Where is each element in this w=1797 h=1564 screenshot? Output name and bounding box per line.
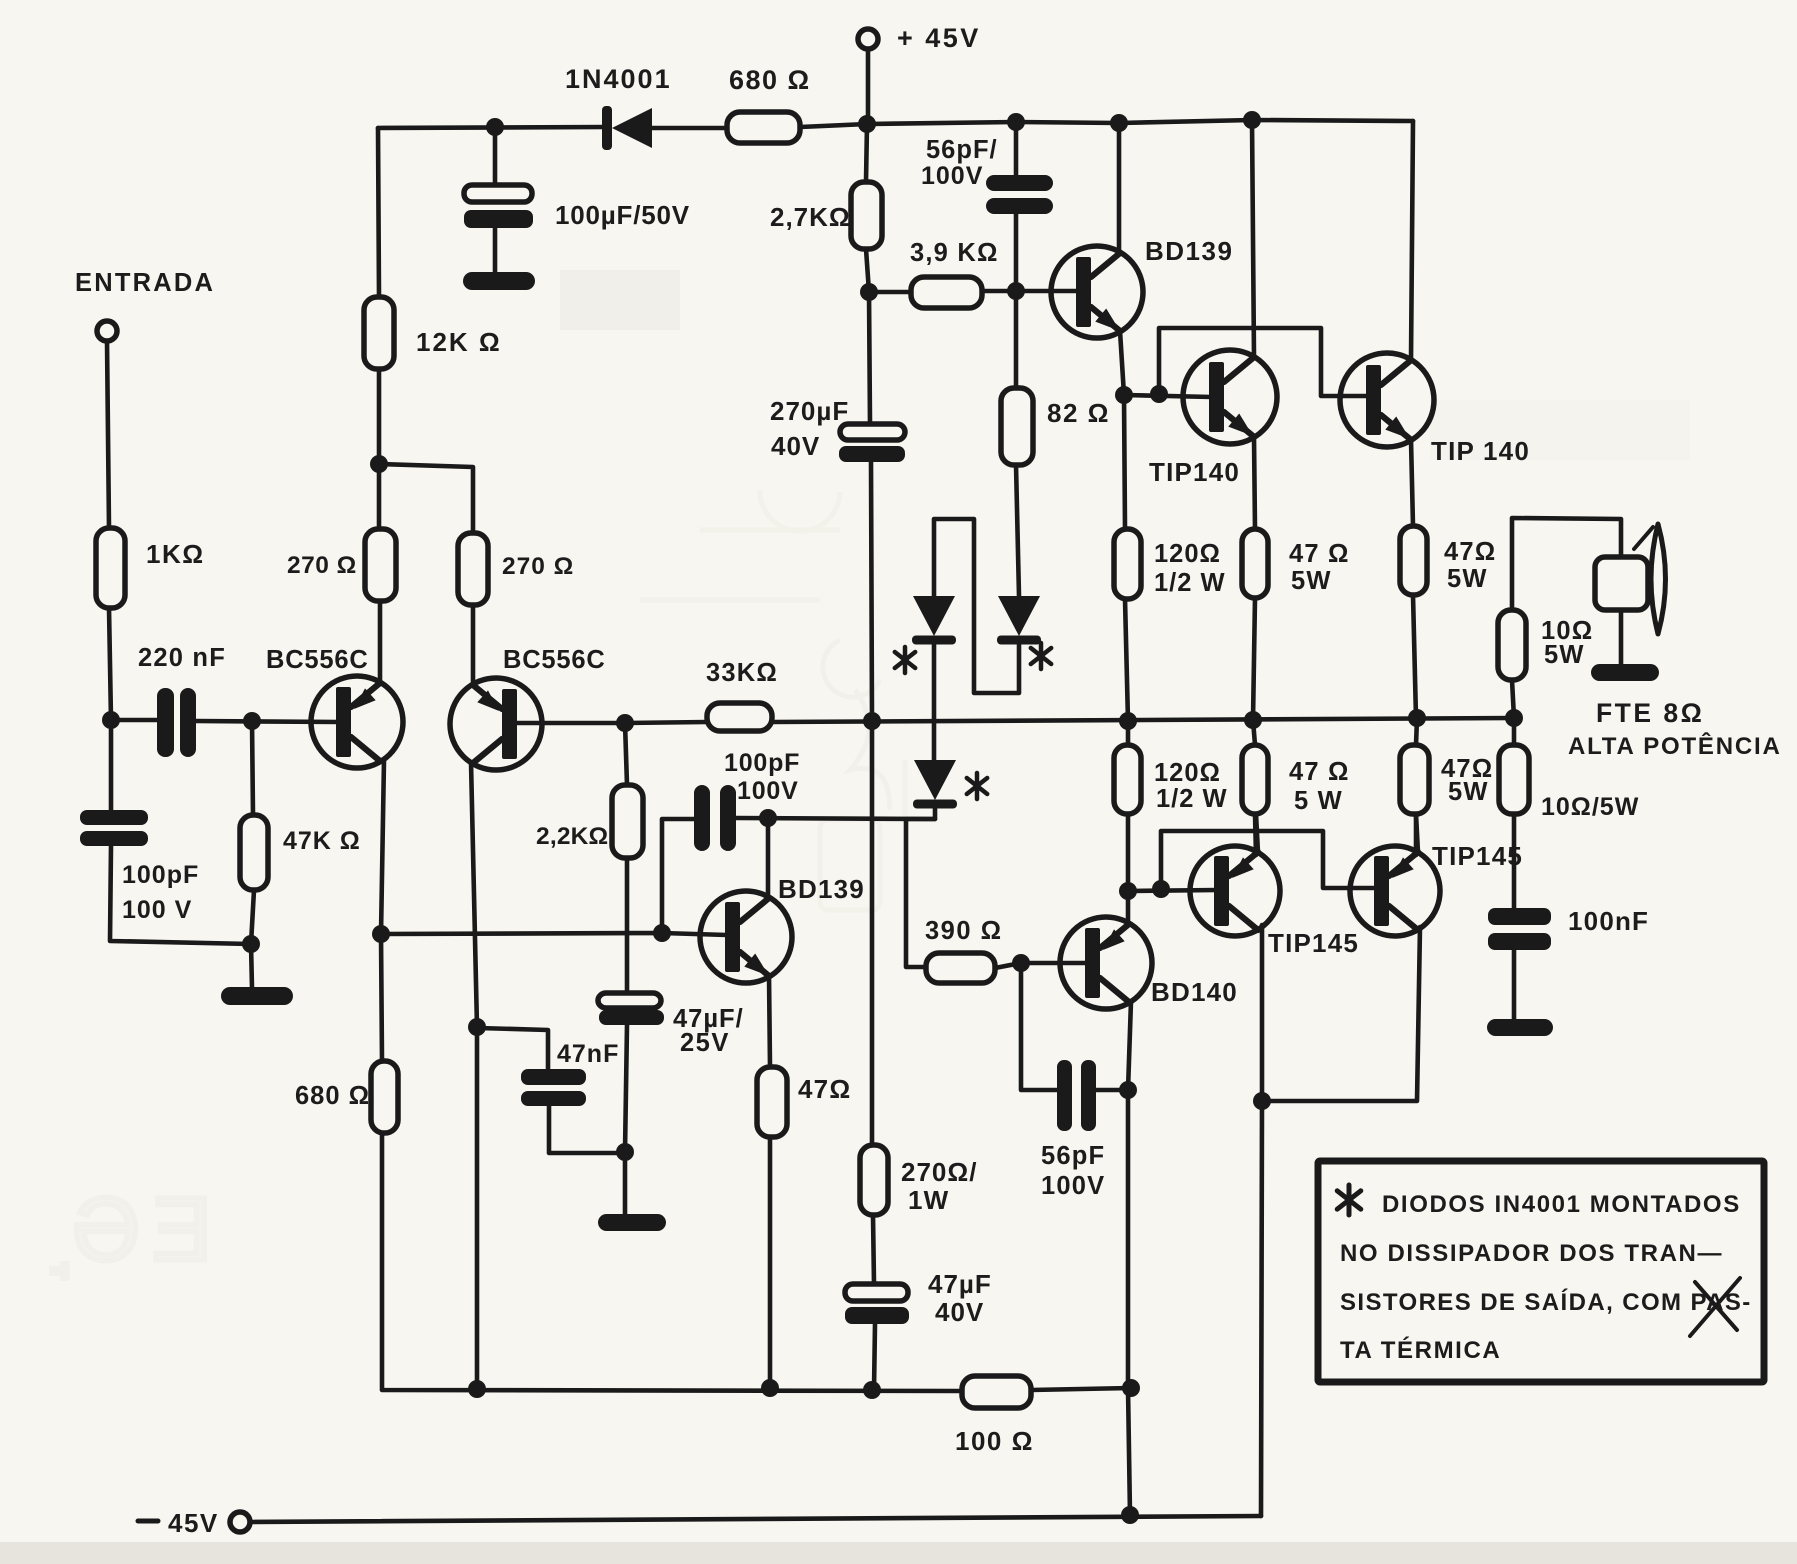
svg-text:120Ω: 120Ω (1154, 540, 1221, 568)
svg-text:+ 45V: + 45V (897, 23, 981, 53)
svg-text:100V: 100V (737, 777, 799, 805)
svg-text:BD140: BD140 (1151, 977, 1238, 1007)
svg-text:TIP145: TIP145 (1432, 841, 1523, 871)
svg-text:BC556C: BC556C (266, 646, 369, 674)
svg-text:BC556C: BC556C (503, 646, 606, 674)
svg-text:270µF: 270µF (770, 396, 849, 426)
svg-text:5W: 5W (1447, 565, 1488, 593)
svg-text:5W: 5W (1291, 567, 1332, 595)
svg-text:680 Ω: 680 Ω (295, 1082, 370, 1110)
svg-text:82 Ω: 82 Ω (1047, 398, 1110, 428)
svg-text:33KΩ: 33KΩ (706, 659, 778, 687)
svg-text:FTE 8Ω: FTE 8Ω (1596, 698, 1704, 728)
svg-text:BD139: BD139 (778, 874, 865, 904)
svg-text:2,7KΩ: 2,7KΩ (770, 202, 851, 232)
svg-text:5W: 5W (1544, 641, 1585, 669)
svg-text:56pF/: 56pF/ (926, 136, 998, 164)
svg-text:1/2 W: 1/2 W (1156, 785, 1228, 813)
svg-text:45V: 45V (168, 1508, 219, 1538)
svg-text:220 nF: 220 nF (138, 644, 226, 672)
svg-text:47Ω: 47Ω (798, 1074, 851, 1104)
svg-text:SISTORES DE SAÍDA, COM PAS-: SISTORES DE SAÍDA, COM PAS- (1340, 1288, 1752, 1316)
svg-text:47Ω: 47Ω (1444, 538, 1496, 566)
svg-text:12K Ω: 12K Ω (416, 327, 502, 357)
svg-text:ENTRADA: ENTRADA (75, 269, 215, 297)
svg-text:1/2 W: 1/2 W (1154, 569, 1226, 597)
svg-text:40V: 40V (935, 1297, 984, 1327)
svg-text:NO DISSIPADOR DOS TRAN—: NO DISSIPADOR DOS TRAN— (1340, 1240, 1723, 1267)
svg-text:1KΩ: 1KΩ (146, 539, 205, 569)
svg-text:100V: 100V (1041, 1172, 1105, 1200)
svg-text:̘ƏƎ: ̘ƏƎ (51, 1180, 224, 1280)
svg-text:270Ω/: 270Ω/ (901, 1157, 977, 1187)
svg-text:100 V: 100 V (122, 896, 192, 924)
svg-text:100µF/50V: 100µF/50V (555, 200, 690, 230)
svg-text:TIP 140: TIP 140 (1431, 436, 1530, 466)
svg-text:390 Ω: 390 Ω (925, 917, 1003, 945)
svg-text:100V: 100V (921, 162, 983, 190)
svg-text:2,2KΩ: 2,2KΩ (536, 823, 608, 850)
svg-text:ALTA POTÊNCIA: ALTA POTÊNCIA (1568, 732, 1782, 760)
svg-text:5W: 5W (1448, 778, 1489, 806)
svg-text:100nF: 100nF (1568, 906, 1649, 936)
svg-text:1W: 1W (908, 1185, 949, 1215)
svg-text:TIP145: TIP145 (1268, 928, 1359, 958)
svg-text:100pF: 100pF (122, 861, 199, 889)
svg-text:TA TÉRMICA: TA TÉRMICA (1340, 1336, 1501, 1364)
svg-text:47nF: 47nF (557, 1040, 619, 1068)
svg-text:270 Ω: 270 Ω (287, 552, 357, 579)
svg-text:40V: 40V (771, 431, 820, 461)
svg-text:47 Ω: 47 Ω (1289, 758, 1350, 786)
svg-text:100 Ω: 100 Ω (955, 1426, 1034, 1456)
svg-text:47 Ω: 47 Ω (1289, 540, 1350, 568)
svg-text:47K Ω: 47K Ω (283, 827, 361, 855)
svg-text:3,9 KΩ: 3,9 KΩ (910, 239, 999, 267)
svg-text:1N4001: 1N4001 (565, 64, 672, 94)
svg-text:56pF: 56pF (1041, 1142, 1105, 1170)
svg-text:5 W: 5 W (1294, 787, 1343, 815)
svg-text:680 Ω: 680 Ω (729, 65, 811, 95)
svg-text:270 Ω: 270 Ω (502, 553, 574, 580)
svg-text:100pF: 100pF (724, 749, 800, 777)
svg-text:47µF: 47µF (928, 1269, 992, 1299)
svg-text:120Ω: 120Ω (1154, 759, 1221, 787)
svg-text:10Ω/5W: 10Ω/5W (1541, 793, 1639, 821)
svg-text:BD139: BD139 (1145, 236, 1233, 266)
svg-text:TIP140: TIP140 (1149, 457, 1240, 487)
svg-text:25V: 25V (680, 1029, 730, 1057)
svg-text:DIODOS IN4001 MONTADOS: DIODOS IN4001 MONTADOS (1382, 1191, 1741, 1218)
